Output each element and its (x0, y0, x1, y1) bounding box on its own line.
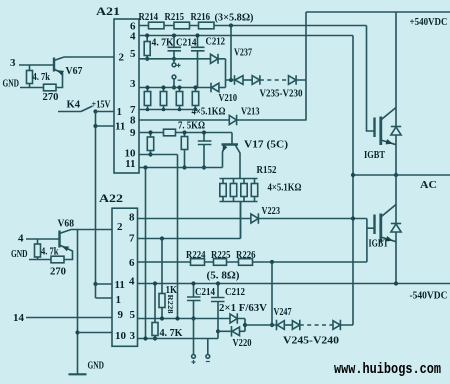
wire +15V to A21 pin 1 (96, 111, 115, 113)
wire +15V vertical bus (95, 112, 97, 285)
svg-text:GND: GND (3, 79, 20, 90)
IGBT upper (373, 118, 375, 138)
svg-text:8: 8 (130, 115, 136, 127)
terminal - (top) (172, 75, 176, 79)
svg-text:V247: V247 (274, 307, 292, 318)
capacitor C214 (bottom) (187, 284, 201, 319)
svg-text:4: 4 (130, 31, 136, 43)
svg-text:3: 3 (10, 57, 16, 69)
svg-text:R214: R214 (139, 12, 159, 23)
transistor V17 (231, 133, 233, 144)
wire ground vertical bus (77, 230, 79, 375)
wire GND row V68 (29, 259, 51, 261)
IGBT lower (373, 215, 375, 235)
ground symbol (69, 373, 87, 375)
wire A22 pin6 row (138, 261, 367, 263)
svg-text:+540VDC: +540VDC (410, 17, 448, 28)
svg-text:10: 10 (115, 330, 127, 342)
svg-text:7: 7 (129, 233, 135, 245)
diode freewheel upper (391, 126, 401, 128)
diode V213 (229, 115, 236, 124)
wire AC row (353, 174, 450, 176)
resistor 270 (V67 emitter) (44, 84, 57, 91)
wire V237 output (218, 59, 231, 88)
wire clamp rail vertical (305, 12, 307, 121)
wire A22 pin4 row / -540VDC rail (138, 283, 450, 285)
svg-text:11: 11 (115, 121, 125, 133)
wire A21 pin7 row (139, 109, 196, 111)
wire A21 pin11 row (139, 167, 223, 169)
wire pin6 junction vertical (230, 26, 232, 81)
diode V220 upper (230, 314, 237, 323)
svg-text:R225: R225 (211, 250, 231, 261)
svg-text:V245-V240: V245-V240 (283, 336, 339, 347)
wire input 3 to V67 base (19, 64, 54, 66)
svg-text:4×5.1KΩ: 4×5.1KΩ (268, 183, 302, 194)
node A21 pin11 left junction (93, 124, 97, 128)
svg-text:9: 9 (118, 309, 124, 321)
resistor R216 (199, 22, 215, 29)
svg-text:4. 7k: 4. 7k (33, 72, 51, 83)
svg-text:K4: K4 (67, 100, 81, 111)
wire R226 output to clamp chain (271, 262, 273, 325)
svg-text:9: 9 (130, 127, 136, 139)
diode V247 (276, 320, 278, 331)
wire A22 pin11 left (96, 283, 113, 285)
svg-text:270: 270 (50, 267, 66, 278)
wire A21 pin3 row (139, 87, 211, 89)
terminal + (bottom) (193, 319, 195, 355)
node A22 pin11 junction on +15V bus (93, 282, 97, 286)
svg-text:-540VDC: -540VDC (410, 291, 448, 302)
resistor R224 (191, 259, 205, 266)
svg-text:5: 5 (130, 48, 136, 60)
resistor R226 (239, 259, 253, 266)
svg-text:8: 8 (129, 212, 135, 224)
svg-text:AC: AC (420, 180, 437, 191)
svg-text:7. 5KΩ: 7. 5KΩ (178, 121, 205, 132)
wire input 14 to A22 pin 9 (26, 317, 112, 319)
svg-text:C212: C212 (206, 37, 226, 48)
diode freewheel lower (391, 223, 401, 225)
wire to A21 pin 11 left (96, 125, 115, 127)
svg-text:4. 7K: 4. 7K (160, 328, 183, 339)
svg-text:R216: R216 (191, 12, 211, 23)
svg-text:V220: V220 (233, 338, 252, 349)
node pin6 junction (229, 23, 233, 27)
wire pin6 to top IGBT gate (367, 26, 375, 132)
diode chain V245-V240 (292, 321, 299, 330)
capacitor on pin9 row (198, 133, 212, 168)
node A22 pin10 junction (75, 330, 79, 334)
wire input 4 to V68 base (26, 238, 60, 240)
svg-text:5: 5 (130, 309, 136, 321)
capacitor C214 (top) (168, 36, 182, 59)
wire pin10 vertical to A22 pin5 row (177, 155, 179, 319)
svg-text:4: 4 (18, 233, 24, 245)
node R226 output junction (270, 260, 274, 264)
wire GND row V67 (20, 87, 44, 89)
wire V68 collector to A22 pin 2 (71, 229, 112, 231)
terminal + (top) (173, 59, 175, 63)
svg-text:(5. 8Ω): (5. 8Ω) (207, 271, 240, 282)
svg-text:11: 11 (115, 279, 125, 291)
svg-text:www.huibogs.com: www.huibogs.com (334, 362, 441, 378)
svg-text:4: 4 (129, 276, 135, 288)
svg-text:V235-V230: V235-V230 (260, 89, 303, 100)
wire A22 pin7 row (138, 202, 241, 239)
resistor R225 (214, 259, 227, 266)
resistor 4.7K (A22 bottom) (154, 284, 156, 339)
wire A21 pin4 row (139, 35, 353, 37)
wire A22 pin8 row (138, 218, 251, 220)
svg-text:14: 14 (13, 312, 25, 324)
terminal - (bottom) (207, 339, 209, 355)
svg-text:2: 2 (119, 52, 125, 64)
diode V220 lower (218, 326, 232, 337)
svg-text:V17 (5C): V17 (5C) (244, 140, 288, 151)
svg-text:C212: C212 (225, 287, 245, 298)
wire A22 pin10 left (78, 332, 113, 334)
svg-text:V210: V210 (219, 93, 238, 104)
svg-text:R224: R224 (186, 250, 206, 261)
wire A21 pin9 row (139, 132, 232, 134)
IC A22 (112, 208, 138, 346)
svg-text:1: 1 (116, 294, 122, 306)
svg-text:IGBT: IGBT (369, 239, 389, 250)
svg-text:3: 3 (130, 78, 136, 90)
svg-text:(3×5.8Ω): (3×5.8Ω) (215, 13, 254, 24)
svg-text:+15V: +15V (92, 100, 112, 111)
wire pin11 vertical to A22 pin3 row (145, 168, 147, 339)
svg-text:1: 1 (117, 106, 123, 118)
svg-text:R152: R152 (257, 165, 277, 176)
svg-text:IGBT: IGBT (364, 150, 385, 161)
diode V210 (210, 83, 212, 93)
wire V220 to chain (245, 324, 277, 326)
capacitor C212 (top) (191, 36, 205, 88)
resistor 4.7k (V68 base) (37, 239, 39, 260)
svg-text:GND: GND (11, 249, 28, 260)
resistor 7.5K (164, 129, 176, 136)
wire A22 pin5 row (138, 318, 231, 320)
wire A22 pin3 row (138, 338, 219, 340)
svg-text:2: 2 (117, 221, 123, 233)
wire pin4 vertical to AC and lower gate (352, 36, 354, 326)
wire R152 bottom to A22 pin7 (240, 202, 242, 239)
node clamp chain input (270, 323, 274, 327)
switch K4 (58, 106, 93, 112)
capacitor C212 (bottom) (211, 284, 225, 339)
svg-text:V67: V67 (66, 66, 83, 77)
svg-text:R226: R226 (236, 250, 256, 261)
svg-text:A22: A22 (99, 193, 123, 205)
transistor V68 (58, 231, 60, 248)
diode chain V235-V230 (231, 75, 235, 85)
svg-text:2×1 F/63V: 2×1 F/63V (219, 303, 268, 314)
node clamp junction (229, 78, 233, 82)
node lower gate junction (351, 216, 355, 220)
resistor 270 (V68 emitter) (51, 256, 64, 263)
network 4x5.1K (top) resistors (147, 88, 149, 110)
IC A21 (114, 19, 139, 173)
resistor 1K R228 (161, 239, 163, 319)
wire A21 pin5 row (139, 58, 211, 60)
svg-text:11: 11 (125, 158, 135, 170)
wire A21 pin8 row (139, 119, 229, 121)
wire A22 pin1 jumper (96, 284, 113, 298)
resistor R215 (174, 22, 190, 29)
wire +540VDC rail (306, 11, 450, 13)
svg-text:6: 6 (129, 257, 135, 269)
resistor R214 (149, 22, 165, 29)
resistor 4.7K (A21 top) (146, 36, 148, 59)
svg-text:V213: V213 (241, 107, 260, 118)
svg-text:R215: R215 (165, 12, 185, 23)
wire main right vertical (395, 12, 397, 284)
diode V223 (251, 214, 258, 223)
svg-text:R228: R228 (166, 295, 174, 315)
wire A21 pin6 row (139, 25, 367, 27)
resistor 4.7k (V67 base) (29, 65, 31, 88)
svg-text:GND: GND (88, 361, 105, 372)
svg-text:270: 270 (43, 92, 59, 103)
wire lower gate drop (366, 219, 368, 263)
svg-text:V237: V237 (234, 48, 252, 59)
svg-text:A21: A21 (96, 6, 120, 18)
resistor network R152 (220, 179, 258, 202)
wire lower gate feed (367, 227, 375, 229)
wire A21 pin10 row (139, 154, 178, 156)
svg-text:3: 3 (130, 330, 136, 342)
wire V67 collector to A21 pin 2 (64, 56, 114, 58)
svg-text:V68: V68 (58, 219, 75, 230)
resistor below pin9 right (184, 133, 186, 168)
svg-text:C214: C214 (195, 287, 215, 298)
svg-text:V223: V223 (262, 206, 281, 217)
transistor V67 (53, 58, 55, 72)
resistor below pin9 left (150, 133, 152, 155)
diode V237 (211, 54, 218, 63)
